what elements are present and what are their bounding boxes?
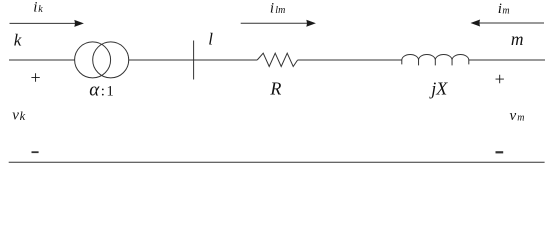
- resistor R: [257, 53, 297, 66]
- svg-text:v: v: [510, 108, 517, 124]
- wire: left terminal to transformer: [9, 59, 75, 61]
- svg-text:v: v: [12, 108, 19, 124]
- svg-text:+: +: [31, 68, 41, 88]
- svg-text:i: i: [33, 0, 37, 16]
- svg-text:m: m: [511, 29, 524, 49]
- svg-text:k: k: [38, 4, 43, 15]
- wire: inductor to right terminal: [469, 59, 545, 61]
- wire: transformer to resistor: [129, 59, 258, 61]
- bottom rail wire: [9, 161, 545, 163]
- current arrow i_lm: [241, 22, 309, 24]
- svg-text:α:1: α:1: [89, 80, 114, 101]
- transformer U1 (ideal, alpha:1): [75, 42, 129, 78]
- svg-text:i: i: [270, 0, 274, 16]
- current arrow i_m (points left): [478, 22, 544, 24]
- svg-text:i: i: [498, 1, 502, 17]
- minus sign right: [496, 151, 504, 153]
- svg-text:l: l: [208, 30, 213, 49]
- minus sign left: [32, 151, 39, 153]
- wire: resistor to inductor: [298, 59, 402, 61]
- svg-text:k: k: [20, 109, 26, 123]
- node l tick: [193, 41, 195, 80]
- svg-text:jX: jX: [429, 79, 448, 99]
- svg-text:m: m: [502, 5, 509, 16]
- svg-text:lm: lm: [275, 5, 285, 16]
- inductor jX: [402, 54, 469, 65]
- current arrow i_k: [10, 22, 77, 24]
- svg-text:k: k: [14, 31, 22, 50]
- svg-text:+: +: [495, 69, 505, 89]
- svg-text:m: m: [517, 112, 524, 123]
- svg-text:R: R: [269, 79, 281, 99]
